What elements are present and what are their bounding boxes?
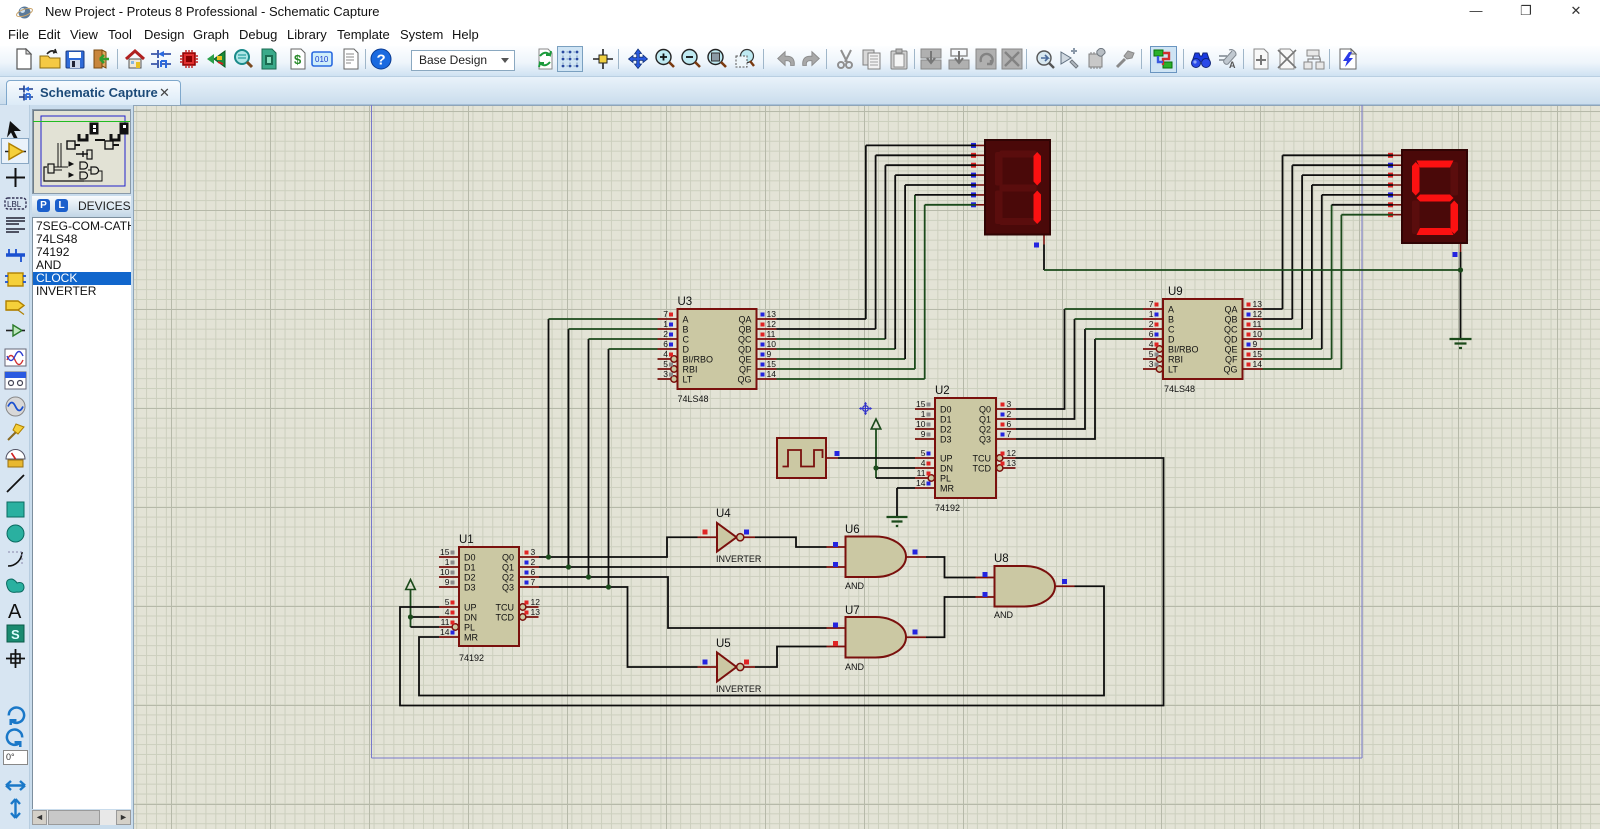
svg-text:C: C (1168, 325, 1175, 335)
svg-text:U5: U5 (716, 638, 731, 650)
svg-text:QB: QB (738, 325, 751, 335)
wire U1.Q1 to U6 input (539, 566, 827, 568)
junction node cathode (1458, 267, 1463, 272)
AND gate U6 (827, 524, 927, 591)
svg-text:BI/RBO: BI/RBO (683, 355, 714, 365)
wire U9.D input segment (1095, 338, 1143, 340)
svg-text:D3: D3 (464, 583, 476, 593)
counter U1 (74192) (439, 534, 540, 663)
svg-text:1: 1 (921, 409, 926, 419)
wire U2.TCU loop to U1.UP (400, 458, 1164, 706)
svg-text:QE: QE (1224, 345, 1237, 355)
svg-text:13: 13 (1007, 458, 1017, 468)
svg-text:DN: DN (940, 464, 953, 474)
wire U9.B input segment (1075, 318, 1144, 320)
svg-text:2: 2 (1149, 319, 1154, 329)
svg-text:13: 13 (1253, 299, 1263, 309)
clock generator CLK (777, 438, 840, 478)
svg-text:14: 14 (767, 369, 777, 379)
wire U5 output to U7 input (755, 647, 827, 668)
svg-text:Q0: Q0 (502, 553, 514, 563)
wire U1.Q3 to U5 input (539, 587, 698, 667)
side panel (30, 105, 133, 829)
power symbol near U1 (406, 580, 416, 628)
wire riser QD DS2 (1312, 185, 1393, 339)
svg-text:QB: QB (1224, 315, 1237, 325)
junction node Q0 (546, 554, 551, 559)
svg-text:QD: QD (738, 345, 752, 355)
svg-text:C: C (683, 335, 690, 345)
svg-text:D2: D2 (464, 573, 476, 583)
svg-text:AND: AND (845, 662, 865, 672)
svg-text:5: 5 (1149, 349, 1154, 359)
wire common cathode bus (1044, 269, 1461, 271)
wire U9.QA to DS2 pin A (1263, 308, 1283, 310)
svg-text:6: 6 (1149, 329, 1154, 339)
svg-text:10: 10 (767, 339, 777, 349)
counter U2 (74192) (915, 385, 1016, 513)
svg-text:PL: PL (464, 623, 475, 633)
svg-text:14: 14 (440, 627, 450, 637)
svg-text:B: B (683, 325, 689, 335)
svg-text:D0: D0 (464, 553, 476, 563)
wire U1.Q0 to U4 input (539, 537, 698, 557)
svg-text:D1: D1 (940, 415, 952, 425)
svg-text:QF: QF (1225, 355, 1238, 365)
svg-text:5: 5 (921, 448, 926, 458)
wire DS1 cathode down (1043, 245, 1045, 271)
menu bar (0, 24, 1600, 46)
svg-text:U4: U4 (716, 508, 731, 520)
wire U9.QC to DS2 pin C (1263, 328, 1303, 330)
wire riser U1.Q0 to U3.A (548, 319, 550, 558)
svg-text:Q2: Q2 (979, 425, 991, 435)
wire U2.Q3 to U9.D (1016, 339, 1095, 439)
svg-text:Q1: Q1 (979, 415, 991, 425)
svg-text:AND: AND (845, 581, 865, 591)
svg-text:6: 6 (1007, 419, 1012, 429)
wire riser QA DS1 (866, 145, 976, 319)
svg-text:$: $ (294, 52, 302, 67)
wire U8 output loop to U1.MR (419, 586, 1104, 695)
wire CLK to U2.UP (838, 457, 915, 459)
svg-text:9: 9 (445, 577, 450, 587)
wire U7 output to U8 input (926, 597, 976, 637)
svg-text:74192: 74192 (935, 503, 960, 513)
wire U3.A input segment (549, 318, 658, 320)
7-segment display DS2 showing 5 (1388, 150, 1467, 257)
wire riser U1.Q1 to U3.B (568, 329, 570, 568)
junction node U1.DN power (408, 614, 413, 619)
svg-text:4: 4 (1149, 339, 1154, 349)
svg-text:D0: D0 (940, 405, 952, 415)
svg-text:TCD: TCD (973, 464, 992, 474)
svg-text:10: 10 (916, 419, 926, 429)
svg-text:9: 9 (767, 349, 772, 359)
svg-text:D3: D3 (940, 435, 952, 445)
wire U3.QC to DS1 pin C (777, 338, 886, 340)
svg-text:UP: UP (464, 603, 477, 613)
svg-text:14: 14 (1253, 359, 1263, 369)
ground symbol under DS2 (1450, 252, 1472, 348)
svg-text:7: 7 (1149, 299, 1154, 309)
wire riser QB DS2 (1292, 165, 1393, 319)
svg-text:010: 010 (315, 55, 329, 64)
wire U9.QD to DS2 pin D (1263, 338, 1312, 340)
svg-text:MR: MR (464, 633, 478, 643)
svg-text:BI/RBO: BI/RBO (1168, 345, 1199, 355)
svg-text:15: 15 (440, 547, 450, 557)
svg-text:U1: U1 (459, 534, 474, 546)
svg-text:QC: QC (1224, 325, 1238, 335)
wire power to U2.DN (876, 467, 915, 469)
inverter U4 (698, 508, 762, 564)
wire U9.QG to DS2 pin G (1263, 215, 1394, 369)
power symbol near U2 (871, 419, 881, 478)
svg-text:QD: QD (1224, 335, 1238, 345)
svg-text:4: 4 (921, 458, 926, 468)
wire riser QE DS2 (1322, 195, 1393, 349)
svg-text:10: 10 (440, 567, 450, 577)
svg-text:7: 7 (663, 309, 668, 319)
svg-text:4: 4 (663, 349, 668, 359)
svg-text:QG: QG (737, 375, 751, 385)
wire U1.Q2 to U7 input (539, 577, 827, 628)
svg-text:LBL: LBL (7, 200, 22, 209)
svg-text:TCD: TCD (496, 613, 515, 623)
svg-text:D1: D1 (464, 563, 476, 573)
wire U6 output to U8 input (926, 557, 976, 578)
svg-text:12: 12 (531, 597, 541, 607)
svg-text:3: 3 (1149, 359, 1154, 369)
svg-text:U3: U3 (678, 296, 693, 308)
wire U2.MR to ground (897, 487, 915, 489)
svg-text:12: 12 (1253, 309, 1263, 319)
wire U9.QF to DS2 pin F (1263, 205, 1332, 359)
svg-text:5: 5 (663, 359, 668, 369)
svg-text:QG: QG (1223, 365, 1237, 375)
svg-text:14: 14 (916, 478, 926, 488)
wire riser QF DS2 (1332, 204, 1393, 206)
svg-text:RBI: RBI (1168, 355, 1183, 365)
svg-text:12: 12 (1007, 448, 1017, 458)
svg-text:?: ? (377, 52, 386, 69)
svg-text:PL: PL (940, 474, 951, 484)
wire U9.QB to DS2 pin B (1263, 318, 1293, 320)
svg-text:11: 11 (767, 329, 776, 339)
svg-text:U9: U9 (1168, 286, 1183, 298)
svg-text:4: 4 (445, 607, 450, 617)
svg-text:U6: U6 (845, 524, 860, 536)
svg-text:INVERTER: INVERTER (716, 684, 762, 694)
BCD decoder U9 (74LS48) (1143, 286, 1263, 394)
svg-text:15: 15 (916, 399, 926, 409)
AND gate U8 (976, 553, 1075, 620)
wire U3.QD to DS1 pin D (777, 348, 896, 350)
junction node Q3 (606, 584, 611, 589)
wire power to U2.PL (876, 477, 915, 479)
AND gate U7 (827, 605, 927, 672)
svg-text:AND: AND (994, 610, 1014, 620)
svg-text:1: 1 (445, 557, 450, 567)
junction node U2.DN power (873, 465, 878, 470)
svg-text:Q1: Q1 (502, 563, 514, 573)
svg-text:QC: QC (738, 335, 752, 345)
svg-text:U2: U2 (935, 385, 950, 397)
svg-text:2: 2 (531, 557, 536, 567)
wire riser QA DS2 (1283, 155, 1394, 309)
svg-text:1: 1 (663, 319, 668, 329)
svg-text:S: S (11, 627, 20, 642)
main toolbar (0, 46, 1600, 77)
svg-text:A: A (683, 315, 689, 325)
wire riser QD DS1 (895, 175, 976, 349)
wire U3.D input segment (609, 348, 658, 350)
svg-text:74192: 74192 (459, 653, 484, 663)
wire riser U1.Q2 to U3.C (588, 339, 590, 578)
svg-text:A: A (8, 601, 22, 622)
svg-text:10: 10 (1253, 329, 1263, 339)
BCD decoder U3 (74LS48) (658, 296, 777, 404)
svg-text:6: 6 (663, 339, 668, 349)
svg-text:D: D (683, 345, 690, 355)
junction node Q2 (586, 574, 591, 579)
wire U3.QG to DS1 pin G (777, 205, 977, 379)
svg-text:7: 7 (1007, 429, 1012, 439)
7-segment display DS1 showing 1 (971, 140, 1050, 248)
wire riser QF DS1 (915, 194, 976, 196)
left tool column (0, 105, 30, 829)
wire U9.C input segment (1085, 328, 1143, 330)
svg-text:TCU: TCU (496, 603, 515, 613)
svg-text:MR: MR (940, 484, 954, 494)
svg-text:LT: LT (683, 375, 693, 385)
svg-text:QA: QA (738, 315, 751, 325)
svg-text:D2: D2 (940, 425, 952, 435)
wire U3.QF to DS1 pin F (777, 195, 915, 369)
svg-text:INVERTER: INVERTER (716, 554, 762, 564)
svg-text:QF: QF (739, 365, 752, 375)
svg-text:11: 11 (441, 617, 450, 627)
svg-text:RBI: RBI (683, 365, 698, 375)
svg-text:Q0: Q0 (979, 405, 991, 415)
svg-text:Q3: Q3 (979, 435, 991, 445)
svg-text:A: A (1168, 305, 1174, 315)
svg-text:74LS48: 74LS48 (1164, 384, 1195, 394)
svg-text:A: A (1229, 60, 1236, 70)
svg-text:9: 9 (921, 429, 926, 439)
svg-text:7: 7 (531, 577, 536, 587)
svg-text:B: B (1168, 315, 1174, 325)
svg-text:TCU: TCU (973, 454, 992, 464)
origin marker (859, 402, 872, 415)
svg-text:QE: QE (738, 355, 751, 365)
junction node Q1 (566, 564, 571, 569)
window title bar (0, 0, 1600, 24)
svg-text:D: D (1168, 335, 1175, 345)
svg-text:QA: QA (1224, 305, 1237, 315)
svg-text:1: 1 (1149, 309, 1154, 319)
wire U2.Q2 to U9.C (1016, 329, 1085, 429)
svg-text:11: 11 (917, 468, 926, 478)
svg-text:LT: LT (1168, 365, 1178, 375)
svg-text:Q3: Q3 (502, 583, 514, 593)
wire riser QC DS1 (885, 165, 976, 339)
wire riser QB DS1 (876, 155, 976, 329)
wire U3.QA to DS1 pin A (777, 318, 866, 320)
wire U3.C input segment (589, 338, 658, 340)
svg-text:13: 13 (767, 309, 777, 319)
svg-text:5: 5 (445, 597, 450, 607)
svg-text:13: 13 (531, 607, 541, 617)
wire U9.A input segment (1065, 308, 1144, 310)
wire U4 output to U6 input (755, 537, 827, 547)
tab bar (0, 77, 1600, 105)
wire U9.QE to DS2 pin E (1263, 348, 1322, 350)
wire U3.QB to DS1 pin B (777, 328, 876, 330)
ground symbol near U2 (887, 488, 908, 526)
svg-text:9: 9 (1253, 339, 1258, 349)
wire riser U1.Q3 to U3.D (608, 349, 610, 588)
wire riser QE DS1 (905, 185, 976, 359)
svg-text:15: 15 (1253, 349, 1263, 359)
wire U2.Q0 to U9.A (1016, 309, 1065, 409)
svg-text:2: 2 (663, 329, 668, 339)
svg-text:DN: DN (464, 613, 477, 623)
wire U3.QE to DS1 pin E (777, 358, 906, 360)
svg-text:UP: UP (940, 454, 953, 464)
svg-text:11: 11 (1253, 319, 1262, 329)
svg-text:6: 6 (531, 567, 536, 577)
svg-text:12: 12 (767, 319, 777, 329)
wire U3.B input segment (569, 328, 658, 330)
svg-text:74LS48: 74LS48 (678, 394, 709, 404)
wire riser QC DS2 (1302, 175, 1393, 329)
svg-text:15: 15 (767, 359, 777, 369)
wire U2.Q1 to U9.B (1016, 319, 1075, 419)
svg-text:3: 3 (531, 547, 536, 557)
svg-text:3: 3 (663, 369, 668, 379)
wire power to U1.PL (411, 626, 440, 628)
svg-text:U7: U7 (845, 605, 860, 617)
svg-text:U8: U8 (994, 553, 1009, 565)
svg-text:Q2: Q2 (502, 573, 514, 583)
svg-text:2: 2 (1007, 409, 1012, 419)
wire power to U1.DN (411, 616, 440, 618)
svg-text:3: 3 (1007, 399, 1012, 409)
sheet border frame (372, 105, 1363, 758)
inverter U5 (698, 638, 762, 694)
